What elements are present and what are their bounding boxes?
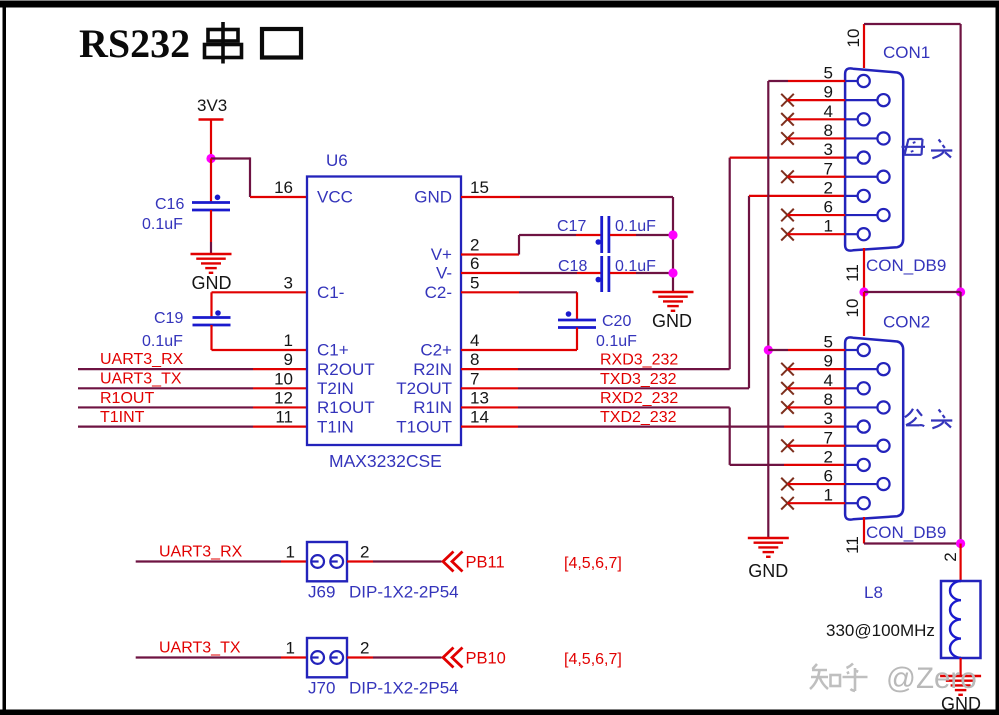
designator J70	[308, 679, 335, 698]
svg-text:V-: V-	[436, 264, 452, 283]
wire net UART3_TX to pin10	[78, 387, 307, 389]
svg-text:10: 10	[844, 29, 863, 48]
no-connect X CON1 pin 1	[781, 228, 845, 241]
svg-text:2: 2	[360, 543, 369, 562]
svg-text:UART3_TX: UART3_TX	[159, 640, 241, 657]
svg-text:330@100MHz: 330@100MHz	[826, 621, 935, 640]
sheet ref [4,5,6,7]	[564, 555, 622, 572]
U6 pin name R1OUT	[317, 398, 375, 417]
net label RXD2_232	[600, 390, 678, 407]
svg-text:C1+: C1+	[317, 341, 349, 360]
wire DB9 pin5 ground net vertical	[767, 81, 769, 538]
title RS232	[79, 21, 190, 66]
svg-text:9: 9	[824, 83, 833, 102]
J70 pin number 1	[286, 639, 295, 658]
junction node C17/GND	[668, 230, 677, 239]
CON1 pin 5	[845, 75, 870, 87]
title char 串	[205, 22, 242, 64]
svg-text:TXD2_232: TXD2_232	[600, 409, 677, 426]
svg-text:CON1: CON1	[883, 43, 930, 62]
CON2 pin number 3	[824, 409, 833, 428]
net label UART3_TX	[159, 640, 241, 657]
U6 pin number 8	[470, 350, 479, 369]
no-connect X CON1 pin 4	[781, 113, 845, 126]
svg-text:CON2: CON2	[883, 313, 930, 332]
wire CON1 pin 10 shield	[864, 24, 961, 292]
CON2 pin number 10 (rotated)	[843, 299, 862, 318]
svg-text:7: 7	[824, 159, 833, 178]
svg-text:6: 6	[470, 254, 479, 273]
svg-text:1: 1	[824, 217, 833, 236]
CON1 pin 1	[845, 228, 870, 240]
U6 pin name T2IN	[317, 379, 354, 398]
label C20	[602, 313, 631, 330]
U6 pin number 5	[470, 273, 479, 292]
junction node shield bus left	[859, 287, 868, 296]
svg-text:15: 15	[470, 178, 489, 197]
svg-text:1: 1	[286, 543, 295, 562]
svg-text:11: 11	[275, 408, 293, 427]
svg-text:TXD3_232: TXD3_232	[600, 371, 677, 388]
svg-text:7: 7	[824, 428, 833, 447]
svg-text:VCC: VCC	[317, 188, 353, 207]
U6 pin number 1	[284, 331, 293, 350]
U6 pin name T1IN	[317, 417, 354, 436]
port label PB10	[466, 650, 506, 668]
wire net R1OUT to pin12	[78, 406, 307, 408]
CON1 pin 4	[845, 113, 870, 125]
connector CON2 designator	[883, 313, 930, 332]
ground GND (pin15/C17/C18)	[652, 292, 694, 331]
title char 口	[262, 29, 301, 58]
wire C18 to GND junction	[610, 272, 673, 274]
wire CON2 pin 11 shield	[864, 517, 961, 544]
CON1 pin number 4	[824, 102, 833, 121]
svg-text:RXD3_232: RXD3_232	[600, 352, 678, 369]
capacitor C18	[596, 256, 609, 292]
svg-text:11: 11	[843, 536, 862, 554]
svg-text:UART3_TX: UART3_TX	[100, 370, 182, 387]
wire J70 pin2 to port PB10	[347, 656, 442, 658]
junction node shield bus right	[956, 287, 965, 296]
svg-text:DIP-1X2-2P54: DIP-1X2-2P54	[349, 679, 459, 698]
wire junction to C16	[210, 159, 212, 203]
connector J70 body	[307, 638, 347, 677]
svg-text:3: 3	[824, 409, 833, 428]
svg-text:10: 10	[274, 369, 293, 388]
wire L8 to ground	[959, 658, 961, 676]
svg-text:T1INT: T1INT	[100, 409, 145, 426]
part DIP-1X2-2P54 (J70)	[349, 679, 459, 698]
svg-text:R1OUT: R1OUT	[317, 398, 375, 417]
svg-text:16: 16	[274, 178, 293, 197]
no-connect X CON1 pin 9	[781, 94, 845, 107]
no-connect X CON2 pin 7	[781, 439, 845, 452]
J69 pin number 2	[360, 543, 369, 562]
CON1 pin 6	[845, 209, 890, 221]
wire C16 to ground	[210, 210, 212, 254]
no-connect X CON2 pin 4	[781, 382, 845, 395]
svg-text:GND: GND	[941, 694, 981, 714]
svg-text:R1OUT: R1OUT	[100, 390, 154, 407]
U6 pin name T2OUT	[396, 379, 452, 398]
svg-text:V+: V+	[431, 245, 452, 264]
svg-text:7: 7	[470, 369, 479, 388]
U6 pin number 16	[274, 178, 293, 197]
label C18	[558, 258, 587, 275]
wire C19 to U6 C1+ pin1	[212, 325, 308, 350]
wire net RXD2_232 pin13 to CON2 pin2	[461, 407, 845, 464]
label C17	[557, 218, 586, 235]
junction node 3V3/VCC	[206, 154, 215, 163]
value C20 0.1uF	[596, 333, 637, 350]
CON1 pin number 9	[824, 83, 833, 102]
wire shield bus	[864, 291, 961, 293]
wire junction to U6 VCC pin16	[211, 157, 307, 197]
net label UART3_RX	[100, 351, 184, 368]
svg-text:T2OUT: T2OUT	[396, 379, 452, 398]
wire CON1 pin 11 shield	[863, 248, 865, 292]
CON1 pin number 3	[824, 140, 833, 159]
J70 pin number 2	[360, 639, 369, 658]
svg-text:3: 3	[284, 273, 293, 292]
wire net TXD2_232 pin14 to CON2 pin3	[461, 426, 845, 428]
wire shield bus right vertical	[959, 292, 961, 544]
U6 pin name C1-	[317, 283, 344, 302]
U6 pin number 15	[470, 178, 489, 197]
wire CON2 pin 10 shield	[863, 292, 865, 336]
U6 pin name C2-	[425, 283, 452, 302]
capacitor C19	[193, 310, 231, 325]
U6 pin name C2+	[420, 341, 452, 360]
svg-text:2: 2	[470, 236, 479, 255]
U6 pin name GND	[414, 188, 452, 207]
connector J69 body	[307, 542, 347, 581]
svg-text:5: 5	[470, 273, 479, 292]
svg-text:C1-: C1-	[317, 283, 344, 302]
svg-text:RS232: RS232	[79, 21, 190, 66]
label C19	[154, 310, 183, 327]
U6 pin number 11	[275, 408, 293, 427]
U6 pin name R2IN	[413, 360, 452, 379]
svg-text:4: 4	[824, 371, 833, 390]
svg-text:0.1uF: 0.1uF	[596, 333, 637, 350]
label 公头	[905, 409, 952, 429]
wire junction to L8 pin2	[959, 544, 961, 582]
svg-text:6: 6	[824, 198, 833, 217]
svg-text:10: 10	[843, 299, 862, 318]
CON2 pin 4	[845, 382, 870, 394]
U6 pin name VCC	[317, 188, 353, 207]
svg-text:6: 6	[824, 467, 833, 486]
svg-text:0.1uF: 0.1uF	[142, 333, 183, 350]
ground GND (L8)	[940, 676, 981, 714]
svg-text:13: 13	[470, 388, 489, 407]
svg-text:C20: C20	[602, 313, 631, 330]
svg-text:GND: GND	[748, 561, 788, 581]
svg-text:UART3_RX: UART3_RX	[100, 351, 184, 368]
capacitor C17	[596, 216, 609, 253]
wire UART3_RX to J69 pin1	[136, 560, 307, 562]
value C17 0.1uF	[615, 218, 656, 235]
wire net TXD3_232 pin7 to CON1 pin2	[461, 196, 845, 388]
svg-text:8: 8	[470, 350, 479, 369]
designator L8	[864, 583, 883, 602]
svg-text:0.1uF: 0.1uF	[142, 216, 183, 233]
svg-text:CON_DB9: CON_DB9	[866, 523, 946, 542]
svg-text:C16: C16	[155, 196, 184, 213]
net label TXD2_232	[600, 409, 677, 426]
ground GND (DB9 pin5)	[748, 538, 789, 581]
svg-text:11: 11	[843, 264, 862, 282]
svg-text:0.1uF: 0.1uF	[615, 218, 656, 235]
U6 pin number 7	[470, 369, 479, 388]
svg-text:U6: U6	[326, 151, 348, 170]
CON2 pin 3	[845, 421, 870, 433]
no-connect X CON1 pin 6	[781, 209, 845, 222]
CON2 pin number 4	[824, 371, 833, 390]
CON2 pin number 9	[824, 352, 833, 371]
svg-text:14: 14	[470, 408, 489, 427]
CON2 pin number 1	[824, 486, 833, 505]
U6 pin name T1OUT	[396, 417, 452, 436]
wire C17 to GND junction	[610, 234, 673, 236]
connector CON1 DB9 shell	[845, 68, 903, 250]
CON1 pin 7	[845, 171, 890, 183]
port label PB11	[466, 554, 505, 572]
svg-text:@Zero: @Zero	[886, 662, 977, 695]
svg-text:2: 2	[941, 552, 960, 561]
svg-text:1: 1	[286, 639, 295, 658]
svg-text:C19: C19	[154, 310, 183, 327]
svg-text:J69: J69	[308, 583, 335, 602]
wire CON2 pin 5 stub	[768, 349, 845, 351]
junction node CON2 pin5	[764, 345, 773, 354]
wire U6 V- pin6 to C18	[461, 272, 601, 274]
CON2 pin number 2	[824, 447, 833, 466]
svg-text:T1OUT: T1OUT	[396, 417, 452, 436]
CON1 pin number 7	[824, 159, 833, 178]
net label UART3_TX	[100, 370, 182, 387]
connector CON1 designator	[883, 43, 930, 62]
svg-text:L8: L8	[864, 583, 883, 602]
value C18 0.1uF	[615, 258, 656, 275]
svg-text:J70: J70	[308, 679, 335, 698]
wire CON1 pin 5 stub	[768, 80, 845, 82]
part DIP-1X2-2P54 (J69)	[349, 583, 459, 602]
CON2 pin number 6	[824, 467, 833, 486]
label CON_DB9 (CON2)	[866, 523, 946, 542]
value C16 0.1uF	[142, 216, 183, 233]
svg-text:C18: C18	[558, 258, 587, 275]
inductor L8	[941, 581, 981, 658]
svg-text:12: 12	[274, 388, 293, 407]
CON2 pin number 8	[824, 390, 833, 409]
svg-text:DIP-1X2-2P54: DIP-1X2-2P54	[349, 583, 459, 602]
wire 3V3 down to junction	[210, 120, 212, 159]
svg-text:RXD2_232: RXD2_232	[600, 390, 678, 407]
svg-text:PB10: PB10	[466, 650, 506, 668]
wire net T1INT to pin11	[78, 426, 307, 428]
svg-text:T1IN: T1IN	[317, 417, 354, 436]
svg-text:4: 4	[470, 331, 479, 350]
watermark 知乎 @Zero	[810, 664, 868, 692]
wire U6 V+ pin2 to C17	[461, 235, 601, 255]
CON2 pin 5	[845, 344, 870, 356]
CON2 pin 1	[845, 497, 870, 509]
svg-text:PB11: PB11	[466, 554, 505, 572]
CON1 pin number 5	[824, 64, 833, 83]
port symbol PB11 chevrons	[443, 552, 463, 572]
svg-text:2: 2	[824, 447, 833, 466]
CON2 pin number 7	[824, 428, 833, 447]
label C16	[155, 196, 184, 213]
value C19 0.1uF	[142, 333, 183, 350]
U6 pin number 3	[284, 273, 293, 292]
svg-text:R2OUT: R2OUT	[317, 360, 375, 379]
wire net UART3_RX to pin9	[78, 368, 307, 370]
svg-text:T2IN: T2IN	[317, 379, 354, 398]
no-connect X CON2 pin 8	[781, 401, 845, 414]
junction node L8	[956, 539, 965, 548]
capacitor C16	[192, 195, 230, 211]
value 330@100MHz	[826, 621, 935, 640]
CON1 pin 2	[845, 190, 870, 202]
svg-text:1: 1	[284, 331, 293, 350]
svg-text:GND: GND	[414, 188, 452, 207]
CON1 pin number 6	[824, 198, 833, 217]
J69 pin number 1	[286, 543, 295, 562]
svg-text:2: 2	[824, 178, 833, 197]
CON1 pin number 2	[824, 178, 833, 197]
CON1 pin 9	[845, 94, 890, 106]
CON2 pin 2	[845, 459, 870, 471]
wire C20 to U6 C2+ pin4	[461, 328, 577, 351]
no-connect X CON1 pin 8	[781, 132, 845, 145]
CON2 pin number 11 (rotated)	[843, 536, 862, 554]
wire UART3_TX to J70 pin1	[136, 656, 307, 658]
svg-text:4: 4	[824, 102, 833, 121]
CON2 pin 8	[845, 401, 890, 413]
junction node C18/GND	[668, 268, 677, 277]
U6 pin name R1IN	[413, 398, 452, 417]
svg-text:8: 8	[824, 121, 833, 140]
net label TXD3_232	[600, 371, 677, 388]
port symbol PB10 chevrons	[443, 648, 463, 668]
svg-text:2: 2	[360, 639, 369, 658]
capacitor C20	[558, 311, 596, 327]
CON1 pin 3	[845, 152, 870, 164]
L8 pin number 2 (rotated)	[941, 552, 960, 561]
CON2 pin 6	[845, 478, 890, 490]
CON1 pin number 1	[824, 217, 833, 236]
sheet ref [4,5,6,7]	[564, 651, 622, 668]
connector CON2 DB9 shell	[845, 337, 903, 519]
U6 pin number 6	[470, 254, 479, 273]
wire J69 pin2 to port PB11	[347, 560, 442, 562]
wire U6 C1- pin3 to C19	[212, 292, 308, 317]
power 3V3	[197, 96, 227, 120]
CON1 pin number 11 (rotated)	[843, 264, 862, 282]
svg-text:R1IN: R1IN	[413, 398, 452, 417]
svg-text:5: 5	[824, 64, 833, 83]
svg-text:CON_DB9: CON_DB9	[866, 256, 946, 275]
U6 pin number 2	[470, 236, 479, 255]
U6 pin number 10	[274, 369, 293, 388]
no-connect X CON2 pin 9	[781, 363, 845, 376]
U6 pin name R2OUT	[317, 360, 375, 379]
no-connect X CON2 pin 1	[781, 497, 845, 510]
U6 pin name V+	[431, 245, 452, 264]
svg-text:MAX3232CSE: MAX3232CSE	[329, 451, 442, 471]
wire U6 GND pin15	[461, 197, 673, 292]
svg-text:[4,5,6,7]: [4,5,6,7]	[564, 555, 622, 572]
designator J69	[308, 583, 335, 602]
label 母头	[902, 139, 953, 158]
ground GND (C16)	[191, 254, 232, 293]
CON1 pin number 10 (rotated)	[844, 29, 863, 48]
svg-text:UART3_RX: UART3_RX	[159, 544, 243, 561]
part number MAX3232CSE	[329, 451, 442, 471]
CON2 pin number 5	[824, 333, 833, 352]
IC U6 MAX3232CSE body	[307, 177, 461, 446]
U6 pin number 14	[470, 408, 489, 427]
CON1 pin number 8	[824, 121, 833, 140]
wire net RXD3_232 pin8 to CON1 pin3	[461, 158, 845, 370]
designator U6	[326, 151, 348, 170]
U6 pin number 4	[470, 331, 479, 350]
svg-text:3: 3	[824, 140, 833, 159]
svg-text:9: 9	[824, 352, 833, 371]
svg-text:C17: C17	[557, 218, 586, 235]
svg-text:R2IN: R2IN	[413, 360, 452, 379]
svg-text:C2+: C2+	[420, 341, 452, 360]
CON1 pin 8	[845, 132, 890, 144]
svg-text:3V3: 3V3	[197, 96, 227, 115]
CON2 pin 7	[845, 440, 890, 452]
svg-text:C2-: C2-	[425, 283, 452, 302]
U6 pin name C1+	[317, 341, 349, 360]
svg-text:[4,5,6,7]: [4,5,6,7]	[564, 651, 622, 668]
no-connect X CON2 pin 6	[781, 478, 845, 491]
wire U6 C2- pin5 to C20	[461, 292, 577, 320]
U6 pin name V-	[436, 264, 452, 283]
svg-text:GND: GND	[652, 311, 692, 331]
U6 pin number 13	[470, 388, 489, 407]
svg-text:9: 9	[284, 350, 293, 369]
svg-text:5: 5	[824, 333, 833, 352]
svg-text:8: 8	[824, 390, 833, 409]
net label UART3_RX	[159, 544, 243, 561]
U6 pin number 9	[284, 350, 293, 369]
net label R1OUT	[100, 390, 154, 407]
CON2 pin 9	[845, 363, 890, 375]
net label T1INT	[100, 409, 145, 426]
no-connect X CON1 pin 7	[781, 170, 845, 183]
net label RXD3_232	[600, 352, 678, 369]
label CON_DB9 (CON1)	[866, 256, 946, 275]
svg-text:GND: GND	[192, 273, 232, 293]
U6 pin number 12	[274, 388, 293, 407]
svg-text:1: 1	[824, 486, 833, 505]
